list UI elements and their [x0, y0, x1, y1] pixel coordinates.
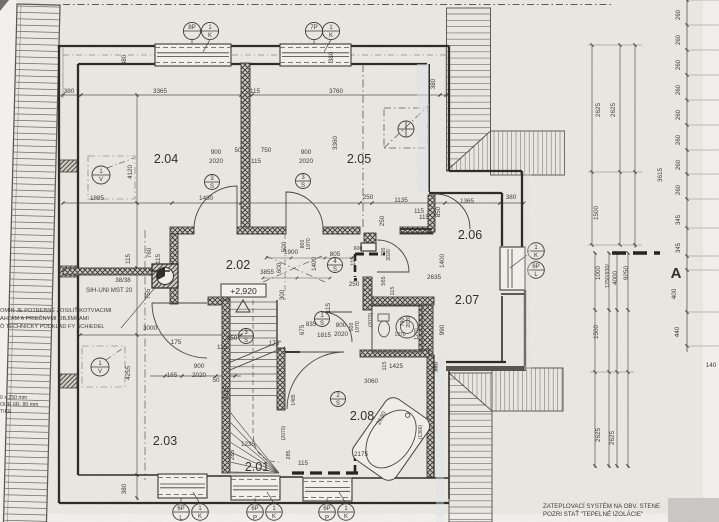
chimney block 38/38 [152, 264, 178, 288]
stair east wall line [276, 300, 278, 352]
door WC [322, 312, 352, 342]
door 2.04 [194, 186, 237, 229]
stair break line [226, 341, 281, 364]
level marker +2,920 [221, 284, 266, 297]
circles bottom window 2 [247, 504, 264, 521]
top exterior wall [59, 45, 449, 64]
roof outline dash-dot line [63, 4, 612, 6]
circles 7P 1/K above W2 [305, 22, 322, 39]
window W2 top (7P) [280, 44, 351, 66]
2.06 niche walls [428, 195, 435, 232]
bathroom east wall [427, 355, 449, 499]
right exterior wall upper [429, 46, 522, 247]
symbol circle 1S [315, 312, 330, 327]
symbol circle 6P/L right wall [528, 243, 545, 260]
door 2.06 (from hall niche) [377, 240, 409, 272]
bottom-right stair corner + ladder [449, 373, 492, 522]
wall 2.05 east [362, 64, 364, 230]
right exterior wall lower (2.07) [446, 290, 526, 371]
hall thick dashed opening marker [355, 253, 385, 256]
hall dim lines [266, 257, 352, 259]
door 2.05 [286, 192, 323, 229]
room 2.06 walls [429, 193, 526, 362]
corridor west wall [170, 234, 178, 268]
left wall hatch pier 3 [60, 374, 77, 388]
symbol circle 4S [328, 258, 343, 273]
window W5 bottom right (6P/P) [303, 478, 352, 501]
bathtub [348, 394, 433, 484]
symbol 1/V in 2.04 [92, 166, 110, 184]
partition 2.04/2.05 [241, 63, 250, 233]
bathroom north wall [360, 350, 429, 357]
symbol circle 2S [331, 392, 346, 407]
symbol leader lines (dash-dot) 2.04 [107, 158, 134, 168]
symbol circle 3S [239, 329, 254, 344]
wall 2.03/2.04 [63, 268, 152, 275]
grey stamp blob bottom right [668, 498, 719, 522]
bottom exterior wall [59, 475, 449, 503]
niche door jamb [364, 233, 376, 243]
dark corner top-left [0, 0, 9, 11]
symbol circle 3S [296, 174, 311, 189]
wall left of 2.03 door [170, 288, 178, 304]
WC toilet [379, 321, 390, 337]
left facade hatched strip [3, 4, 60, 522]
top-right terrace band, vertical stripes [491, 131, 565, 175]
circles 8P 1/K above W1 [183, 22, 200, 39]
shower/WC fixture circle B75 [372, 306, 422, 352]
window W3 bottom left (6P/L) [158, 474, 207, 498]
circles bottom window 3 [319, 504, 336, 521]
door 2.08 [287, 352, 344, 409]
door 2.06 NW [435, 194, 470, 229]
left wall hatch pier 2 [60, 266, 77, 277]
symbol 1/V in 2.03 [91, 358, 109, 376]
2.03 north wall piece + door jamb [152, 270, 170, 272]
hall south-east partition [363, 277, 372, 310]
staircase treads [230, 302, 279, 473]
corridor north wall [170, 227, 194, 234]
symbol circle 3S [205, 175, 220, 190]
window W6 right wall (6P/L) [500, 247, 525, 290]
section line A dashes [612, 251, 660, 254]
dashed ceiling opening [384, 108, 428, 148]
door 2.03 [152, 303, 207, 358]
scan tint bands [417, 64, 429, 192]
window W1 top (8P) [155, 44, 231, 66]
stair west wall [222, 300, 230, 473]
left exterior wall [59, 46, 78, 503]
circles bottom window 1 [173, 504, 190, 521]
left wall hatch pier 1 [60, 160, 77, 172]
bottom-right terrace band, vertical stripes [492, 368, 563, 411]
2.08 south dashed wall [292, 471, 360, 474]
top-right exterior stair ladder [447, 8, 491, 171]
window W4 bottom mid (6P/P) [231, 476, 280, 500]
stair walk line [253, 300, 279, 462]
up arrow near +2,920 [236, 300, 250, 312]
